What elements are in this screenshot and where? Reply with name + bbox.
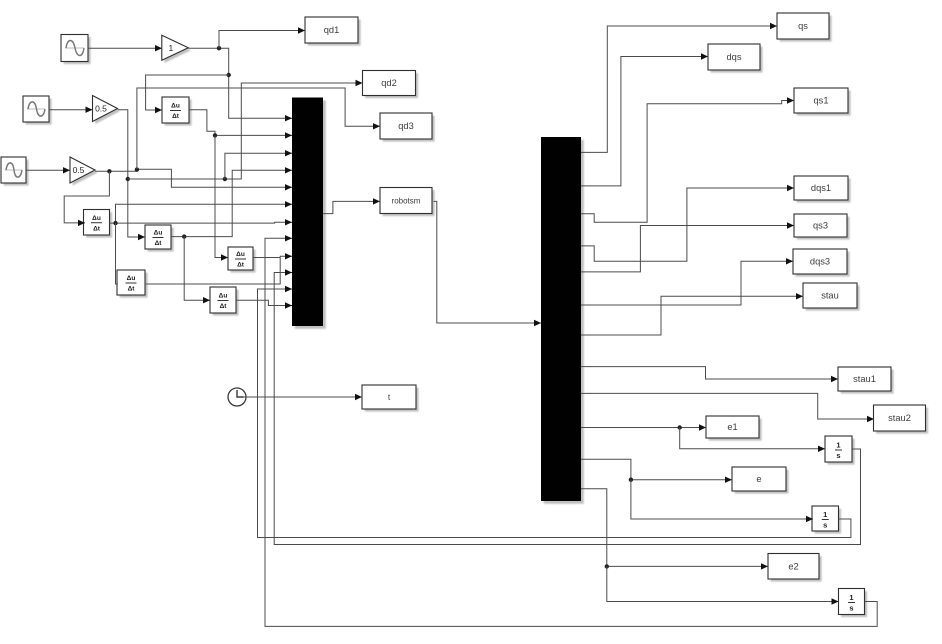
svg-text:qs3: qs3 [813,221,828,231]
svg-text:robotsm: robotsm [392,197,421,206]
svg-text:1: 1 [836,441,840,450]
svg-text:dqs1: dqs1 [811,183,831,193]
svg-text:s: s [849,604,853,613]
svg-text:1: 1 [849,593,853,602]
svg-text:e2: e2 [788,561,798,571]
svg-text:0.5: 0.5 [95,104,107,114]
svg-text:Δt: Δt [93,225,101,232]
svg-text:qd2: qd2 [381,78,397,88]
svg-text:Δt: Δt [237,262,245,269]
svg-text:Δu: Δu [127,275,136,282]
svg-text:Δt: Δt [128,286,136,293]
svg-text:Δt: Δt [172,113,180,120]
svg-text:Δt: Δt [220,303,228,310]
svg-text:Δt: Δt [155,240,163,247]
svg-text:dqs3: dqs3 [810,257,830,267]
svg-text:1: 1 [168,43,173,53]
svg-text:s: s [823,521,827,530]
svg-text:e1: e1 [727,422,737,432]
svg-text:Δu: Δu [236,251,245,258]
svg-text:stau: stau [821,291,839,301]
svg-text:Δu: Δu [171,103,180,110]
svg-text:e: e [756,474,761,484]
svg-text:dqs: dqs [727,52,742,62]
svg-text:Δu: Δu [92,215,101,222]
svg-text:Δu: Δu [154,230,163,237]
svg-text:1: 1 [823,510,827,519]
svg-text:qd1: qd1 [324,25,340,35]
svg-text:s: s [836,451,840,460]
svg-text:Δu: Δu [219,293,228,300]
svg-text:stau1: stau1 [853,374,876,384]
svg-text:qs1: qs1 [814,96,829,106]
svg-text:stau2: stau2 [888,413,911,423]
svg-text:qd3: qd3 [398,121,414,131]
svg-text:qs: qs [798,21,808,31]
svg-text:0.5: 0.5 [73,165,85,175]
